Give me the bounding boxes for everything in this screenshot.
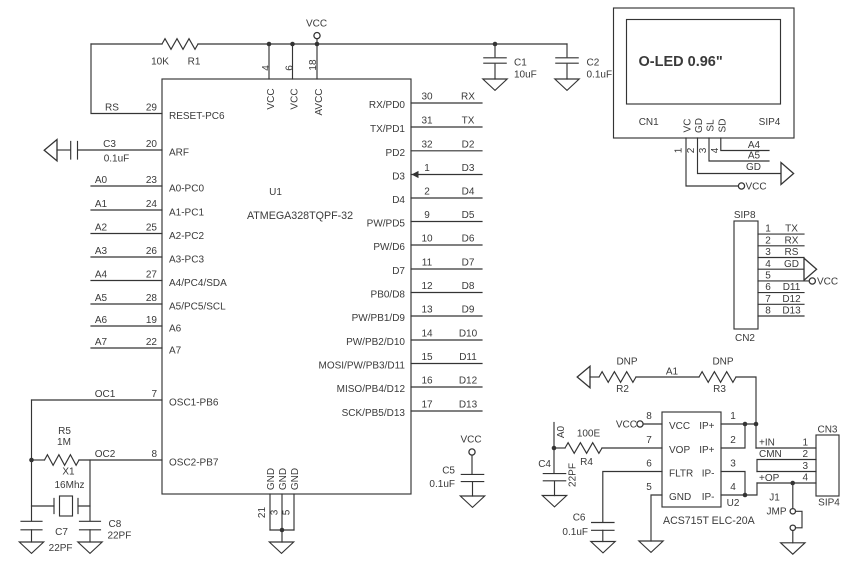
svg-text:5: 5 — [282, 509, 293, 515]
svg-text:D11: D11 — [459, 352, 477, 363]
wire U1 pin 4 VCC stub — [268, 44, 270, 79]
svg-text:VCC: VCC — [669, 421, 690, 432]
junction node +OP/J1 — [790, 481, 795, 486]
svg-text:R2: R2 — [616, 384, 629, 395]
svg-text:C5: C5 — [442, 466, 455, 477]
svg-text:4: 4 — [730, 482, 736, 493]
wire net A2 to U1 — [91, 233, 162, 235]
wire CN2 pin 3 — [758, 257, 804, 259]
IC U2 body — [662, 412, 721, 507]
svg-text:+IN: +IN — [759, 437, 775, 448]
svg-text:PD2: PD2 — [386, 148, 406, 159]
svg-text:7: 7 — [151, 389, 157, 400]
svg-text:D12: D12 — [782, 294, 801, 305]
wire CN1 pin 4 to A4 — [721, 138, 769, 151]
IC U1 body — [162, 79, 411, 494]
wire net D7 from U1 — [411, 268, 482, 270]
svg-text:100E: 100E — [577, 429, 601, 440]
svg-text:A5/PC5/SCL: A5/PC5/SCL — [169, 301, 226, 312]
wire R3 to IP+ — [736, 377, 756, 448]
wire net D2 from U1 — [411, 150, 482, 152]
svg-text:D3: D3 — [392, 172, 405, 183]
svg-text:3: 3 — [765, 247, 771, 258]
wire CN3 pin 3 line — [757, 471, 816, 473]
wire net A7 to U1 — [91, 347, 162, 349]
ground symbol C4 — [542, 496, 566, 507]
display module CN1 outer body — [614, 8, 795, 138]
svg-text:A1-PC1: A1-PC1 — [169, 207, 204, 218]
svg-text:X1: X1 — [62, 467, 75, 478]
svg-text:PW/D6: PW/D6 — [373, 242, 405, 253]
resistor R4 — [565, 443, 602, 454]
svg-text:2: 2 — [686, 147, 697, 153]
resistor R2 — [599, 372, 636, 383]
svg-text:VCC: VCC — [266, 88, 277, 109]
svg-text:SIP4: SIP4 — [759, 117, 781, 128]
capacitor C7 — [21, 521, 42, 530]
wire net RX from U1 — [411, 102, 482, 104]
svg-text:0.1uF: 0.1uF — [562, 527, 588, 538]
svg-text:20: 20 — [146, 139, 158, 150]
wire net D8 from U1 — [411, 292, 482, 294]
svg-text:4: 4 — [765, 259, 771, 270]
svg-text:C1: C1 — [514, 57, 527, 68]
svg-text:7: 7 — [646, 435, 652, 446]
junction node pin3/pin4 — [743, 493, 748, 498]
svg-text:22PF: 22PF — [107, 530, 131, 541]
wire J1 shunt link — [796, 511, 802, 528]
wire CN2 pin 7 — [758, 303, 804, 305]
svg-text:A0: A0 — [95, 175, 108, 186]
ground symbol C5 — [460, 496, 484, 507]
svg-text:VOP: VOP — [669, 445, 690, 456]
svg-text:A1: A1 — [666, 366, 679, 377]
svg-text:IP+: IP+ — [699, 445, 714, 456]
svg-text:GD: GD — [784, 259, 799, 270]
wire ARF to U1 pin 20 — [78, 149, 162, 151]
svg-text:D11: D11 — [783, 282, 801, 293]
svg-text:17: 17 — [421, 400, 433, 411]
svg-text:MISO/PB4/D12: MISO/PB4/D12 — [337, 384, 406, 395]
svg-text:11: 11 — [422, 258, 433, 269]
svg-text:0.1uF: 0.1uF — [104, 154, 130, 165]
ground symbol C2 — [555, 79, 579, 90]
svg-text:19: 19 — [146, 315, 158, 326]
svg-text:ARF: ARF — [169, 147, 189, 158]
wire to R4 — [554, 447, 565, 449]
svg-text:C3: C3 — [103, 139, 116, 150]
svg-text:PB0/D8: PB0/D8 — [371, 290, 406, 301]
wire A1 net — [636, 376, 699, 378]
wire CMN to CN3 pin 2 — [757, 460, 816, 472]
crystal X1 — [32, 505, 91, 507]
svg-text:27: 27 — [146, 269, 158, 280]
svg-text:CN1: CN1 — [639, 117, 659, 128]
svg-text:A7: A7 — [95, 337, 108, 348]
wire ARF left segment — [57, 149, 70, 151]
pin D3 input arrowhead — [412, 171, 419, 178]
wire net D3 from U1 — [411, 174, 482, 176]
svg-text:PW/PB2/D10: PW/PB2/D10 — [346, 337, 405, 348]
ground symbol C6 — [591, 542, 615, 553]
svg-text:DNP: DNP — [712, 357, 733, 368]
wire net D11 from U1 — [411, 363, 482, 365]
svg-text:MOSI/PW/PB3/D11: MOSI/PW/PB3/D11 — [318, 361, 405, 372]
resistor R3 — [699, 372, 736, 383]
wire CN2 pin 1 — [758, 233, 804, 235]
svg-text:GND: GND — [290, 468, 301, 490]
wire net A1 to U1 — [91, 209, 162, 211]
svg-text:22PF: 22PF — [568, 463, 579, 487]
junction node pin1/A1 — [754, 422, 759, 427]
svg-text:23: 23 — [146, 175, 158, 186]
power port VCC at CN1 pin 1 — [738, 183, 744, 189]
capacitor C3 — [71, 142, 78, 160]
wire U1 GND pin 3 stub — [281, 494, 283, 530]
svg-text:CMN: CMN — [759, 449, 782, 460]
svg-text:31: 31 — [421, 116, 433, 127]
svg-text:GND: GND — [278, 468, 289, 490]
svg-text:A5: A5 — [748, 151, 761, 162]
svg-text:6: 6 — [646, 458, 652, 469]
svg-text:R4: R4 — [580, 457, 593, 468]
input port arrow (A1 net) — [577, 366, 590, 387]
svg-text:4: 4 — [710, 147, 721, 153]
svg-text:7: 7 — [765, 294, 771, 305]
svg-text:C4: C4 — [538, 459, 551, 470]
svg-text:1: 1 — [802, 437, 808, 448]
svg-text:RESET-PC6: RESET-PC6 — [169, 111, 225, 122]
wire VCC top rail — [91, 43, 567, 45]
svg-text:13: 13 — [421, 305, 433, 316]
svg-text:8: 8 — [151, 449, 157, 460]
svg-text:5: 5 — [646, 482, 652, 493]
svg-text:3: 3 — [730, 458, 736, 469]
svg-text:A7: A7 — [169, 345, 182, 356]
svg-text:J1: J1 — [769, 493, 780, 504]
capacitor C1 — [494, 44, 496, 79]
wire CN2 pin 4 — [758, 268, 804, 270]
junction node GND tie — [280, 528, 285, 533]
wire CN2 pin 2 — [758, 245, 804, 247]
svg-text:10uF: 10uF — [514, 70, 537, 81]
capacitor C6 — [592, 523, 614, 531]
svg-text:ATMEGA328TQPF-32: ATMEGA328TQPF-32 — [247, 210, 353, 222]
jumper J1 — [792, 483, 794, 508]
wire CN2 pin 8 — [758, 315, 804, 317]
svg-text:10K: 10K — [151, 57, 169, 68]
svg-text:2: 2 — [730, 435, 736, 446]
wire CN2 pin 6 — [758, 292, 804, 294]
svg-text:AVCC: AVCC — [314, 88, 325, 115]
svg-text:VC: VC — [683, 119, 694, 133]
svg-text:2: 2 — [765, 235, 771, 246]
svg-text:C6: C6 — [573, 513, 586, 524]
svg-text:12: 12 — [421, 281, 433, 292]
wire net D13 from U1 — [411, 410, 482, 412]
svg-text:GD: GD — [694, 118, 705, 133]
wire OC2 net — [79, 459, 162, 461]
svg-text:GD: GD — [746, 162, 761, 173]
wire pin1-pin2 tie — [721, 424, 745, 448]
svg-text:OSC1-PB6: OSC1-PB6 — [169, 397, 219, 408]
svg-text:A0-PC0: A0-PC0 — [169, 183, 204, 194]
wire GND tie — [270, 530, 294, 542]
svg-text:C2: C2 — [587, 57, 600, 68]
svg-text:TX/PD1: TX/PD1 — [370, 124, 405, 135]
wire net D10 from U1 — [411, 339, 482, 341]
wire CN2 pin 5 — [758, 280, 809, 282]
svg-text:RS: RS — [105, 102, 119, 113]
svg-text:A6: A6 — [169, 323, 182, 334]
capacitor C4 — [553, 448, 556, 496]
wire net D4 from U1 — [411, 197, 482, 199]
svg-text:15: 15 — [421, 352, 433, 363]
svg-text:32: 32 — [421, 139, 433, 150]
svg-text:OC2: OC2 — [95, 449, 116, 460]
svg-text:VCC: VCC — [460, 435, 481, 446]
wire U2 pin 1 IP+ — [721, 423, 756, 425]
power port VCC at CN2 pin 5 — [809, 278, 815, 284]
wire U1 GND pin 5 stub — [293, 494, 295, 530]
wire net D9 from U1 — [411, 315, 482, 317]
svg-text:TX: TX — [785, 224, 798, 235]
svg-text:D12: D12 — [459, 376, 478, 387]
wire U2 pin 4 to +OP — [721, 483, 757, 495]
wire CN1 pin 3 to A5 — [709, 138, 769, 161]
ground symbol U1 — [269, 542, 293, 553]
svg-text:4: 4 — [802, 472, 808, 483]
svg-text:D3: D3 — [462, 163, 475, 174]
svg-text:29: 29 — [146, 102, 158, 113]
svg-text:10: 10 — [421, 234, 433, 245]
wire net A4 to U1 — [91, 280, 162, 282]
svg-text:D4: D4 — [462, 187, 475, 198]
wire net A6 to U1 — [91, 325, 162, 327]
wire net D12 from U1 — [411, 386, 482, 388]
svg-text:22: 22 — [146, 337, 158, 348]
svg-text:A1: A1 — [95, 199, 108, 210]
svg-text:2: 2 — [802, 449, 808, 460]
svg-text:IP-: IP- — [702, 469, 715, 480]
svg-text:9: 9 — [424, 210, 430, 221]
wire net D6 from U1 — [411, 244, 482, 246]
wire U2 pin 3 tie to pin 4 — [721, 472, 745, 496]
svg-text:A4: A4 — [95, 269, 108, 280]
svg-text:16: 16 — [421, 376, 433, 387]
ground symbol C1 — [483, 79, 507, 90]
svg-text:DNP: DNP — [616, 357, 637, 368]
svg-text:A4: A4 — [748, 140, 761, 151]
display screen rectangle — [627, 20, 781, 105]
svg-text:IP-: IP- — [702, 492, 715, 503]
output port arrow GD (CN1) — [781, 163, 794, 185]
svg-text:D5: D5 — [462, 210, 475, 221]
svg-text:VCC: VCC — [290, 88, 301, 109]
svg-text:D7: D7 — [392, 266, 405, 277]
capacitor C2 — [566, 44, 568, 79]
svg-text:1: 1 — [730, 411, 736, 422]
wire net A5 to U1 — [91, 303, 162, 305]
svg-text:8: 8 — [646, 411, 652, 422]
svg-text:VCC: VCC — [746, 181, 767, 192]
svg-text:D4: D4 — [392, 195, 405, 206]
svg-text:2: 2 — [424, 187, 430, 198]
wire J1 to ground — [792, 531, 794, 543]
svg-text:U1: U1 — [269, 187, 282, 198]
resistor R5 — [32, 459, 45, 461]
svg-text:A2: A2 — [95, 222, 108, 233]
svg-text:O-LED 0.96": O-LED 0.96" — [639, 54, 723, 70]
svg-text:4: 4 — [261, 65, 272, 71]
svg-text:25: 25 — [146, 222, 158, 233]
junction node at C1 — [493, 42, 498, 47]
svg-text:D13: D13 — [782, 306, 801, 317]
svg-text:CN2: CN2 — [735, 333, 755, 344]
svg-text:24: 24 — [146, 199, 158, 210]
wire OC1 net — [32, 399, 163, 401]
wire net D5 from U1 — [411, 221, 482, 223]
svg-text:3: 3 — [270, 509, 281, 515]
svg-text:TX: TX — [462, 116, 475, 127]
svg-text:22PF: 22PF — [49, 543, 73, 554]
wire net A3 to U1 — [91, 256, 162, 258]
svg-text:RS: RS — [785, 247, 799, 258]
connector CN2 body — [734, 221, 758, 329]
svg-text:C8: C8 — [109, 519, 122, 530]
svg-text:16Mhz: 16Mhz — [54, 480, 84, 491]
wire +OP to CN3 pin 4 — [757, 482, 816, 484]
svg-text:3: 3 — [698, 147, 709, 153]
svg-text:VCC: VCC — [616, 419, 637, 430]
svg-text:CN3: CN3 — [817, 424, 837, 435]
svg-text:PW/PD5: PW/PD5 — [367, 219, 406, 230]
wire net A0 to U1 — [91, 185, 162, 187]
wire R4 to U2 VOP — [602, 447, 662, 449]
capacitor C8 — [80, 521, 101, 530]
ground symbol U2 — [639, 541, 663, 552]
svg-text:3: 3 — [802, 461, 808, 472]
svg-text:+OP: +OP — [759, 473, 780, 484]
wire RESET pullup branch to pin 29 — [91, 44, 162, 114]
wire CN1 pin 1 to VCC — [686, 138, 738, 186]
svg-text:30: 30 — [421, 92, 433, 103]
connector CN3 body — [816, 435, 839, 496]
wire U2 FLTR to C6 — [603, 472, 662, 522]
junction node at pin 18 — [315, 42, 320, 47]
svg-text:SD: SD — [718, 119, 729, 133]
junction node OC2 left — [29, 458, 34, 463]
svg-text:SCK/PB5/D13: SCK/PB5/D13 — [342, 408, 406, 419]
svg-text:0.1uF: 0.1uF — [587, 70, 613, 81]
svg-text:R3: R3 — [713, 384, 726, 395]
wire CN1 pin 2 to GD — [698, 138, 782, 174]
svg-text:A2-PC2: A2-PC2 — [169, 231, 204, 242]
svg-text:0.1uF: 0.1uF — [429, 479, 455, 490]
svg-text:OSC2-PB7: OSC2-PB7 — [169, 457, 219, 468]
junction node at pin 4 — [267, 42, 272, 47]
wire U2 GND pin 5 to ground — [651, 495, 662, 541]
svg-text:18: 18 — [308, 59, 319, 71]
svg-text:D6: D6 — [462, 234, 475, 245]
output port arrow GD (CN2) — [804, 258, 817, 280]
svg-text:1: 1 — [674, 147, 685, 153]
svg-text:28: 28 — [146, 293, 158, 304]
wire net TX from U1 — [411, 126, 482, 128]
wire U1 pin 18 AVCC stub — [316, 39, 318, 79]
svg-text:A3-PC3: A3-PC3 — [169, 254, 204, 265]
svg-text:6: 6 — [765, 282, 771, 293]
svg-text:D13: D13 — [459, 400, 478, 411]
svg-text:A5: A5 — [95, 293, 108, 304]
resistor R1 — [162, 39, 198, 50]
net stub A0 — [553, 423, 555, 449]
svg-text:SIP4: SIP4 — [818, 497, 840, 508]
svg-text:14: 14 — [421, 329, 433, 340]
junction node at pin 6 — [290, 42, 295, 47]
capacitor C5 — [471, 455, 474, 496]
svg-text:D2: D2 — [462, 139, 475, 150]
wire U1 GND pin 21 stub — [269, 494, 271, 530]
junction node pin1/pin2 — [743, 422, 748, 427]
svg-text:A6: A6 — [95, 315, 108, 326]
wire port to R2 — [590, 376, 599, 378]
svg-text:R5: R5 — [58, 426, 71, 437]
svg-text:1: 1 — [424, 163, 430, 174]
svg-text:IP+: IP+ — [699, 421, 714, 432]
svg-text:8: 8 — [765, 306, 771, 317]
svg-text:D8: D8 — [462, 281, 475, 292]
svg-text:RX: RX — [461, 92, 475, 103]
ground symbol C8 — [78, 542, 102, 553]
svg-text:FLTR: FLTR — [669, 469, 693, 480]
svg-text:26: 26 — [146, 246, 158, 257]
svg-text:RX/PD0: RX/PD0 — [369, 100, 406, 111]
wire VCC to U2 pin 8 — [643, 423, 662, 425]
svg-text:1: 1 — [765, 224, 771, 235]
svg-text:OC1: OC1 — [95, 389, 116, 400]
wire left osc vertical — [31, 400, 33, 521]
svg-text:A3: A3 — [95, 246, 108, 257]
svg-text:GND: GND — [669, 492, 691, 503]
svg-text:D7: D7 — [462, 258, 475, 269]
svg-text:JMP: JMP — [767, 506, 787, 517]
ground symbol C7 — [19, 542, 43, 553]
wire +IN to CN3 pin 1 — [756, 447, 816, 449]
svg-text:SIP8: SIP8 — [734, 210, 756, 221]
svg-text:6: 6 — [285, 65, 296, 71]
svg-text:21: 21 — [257, 507, 268, 519]
svg-text:VCC: VCC — [306, 19, 327, 30]
svg-text:1M: 1M — [57, 437, 71, 448]
ground symbol J1 — [781, 543, 805, 554]
svg-text:R1: R1 — [188, 57, 201, 68]
power port VCC top — [314, 33, 320, 39]
svg-text:VCC: VCC — [817, 276, 838, 287]
svg-text:GND: GND — [266, 468, 277, 490]
wire U1 pin 6 VCC stub — [292, 44, 294, 79]
svg-text:A4/PC4/SDA: A4/PC4/SDA — [169, 278, 227, 289]
svg-text:U2: U2 — [727, 498, 740, 509]
svg-text:SL: SL — [706, 119, 717, 132]
svg-text:C7: C7 — [55, 527, 68, 538]
wire OC2 to C8 — [89, 460, 91, 521]
svg-text:PW/PB1/D9: PW/PB1/D9 — [352, 313, 406, 324]
svg-text:ACS715T ELC-20A: ACS715T ELC-20A — [663, 515, 756, 527]
svg-text:D9: D9 — [462, 305, 475, 316]
svg-text:D10: D10 — [459, 329, 478, 340]
junction node A0/R4/C4 — [552, 446, 557, 451]
